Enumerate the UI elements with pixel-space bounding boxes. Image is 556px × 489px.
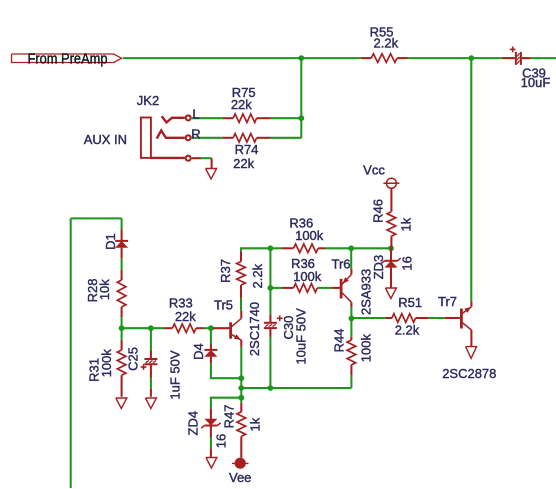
svg-text:2SA933: 2SA933 <box>359 269 374 315</box>
svg-text:16: 16 <box>214 434 229 448</box>
zener diode ZD3 <box>371 248 415 287</box>
wire R44 top <box>350 318 352 336</box>
wire row1 b <box>325 247 391 249</box>
resistor R28 <box>85 270 126 317</box>
junction <box>298 55 304 61</box>
wire Tr5 collector <box>240 298 242 311</box>
wire bias node row <box>122 327 165 329</box>
wire D1 to R28 <box>121 258 123 270</box>
svg-text:1k: 1k <box>399 217 414 231</box>
wire Tr5 emitter column <box>240 347 242 403</box>
svg-text:R37: R37 <box>218 259 233 283</box>
ground <box>385 288 396 299</box>
resistor R36 lower <box>282 256 322 292</box>
transistor Tr6 <box>331 256 373 315</box>
wire R51 row a <box>351 317 385 319</box>
svg-text:R44: R44 <box>332 329 347 353</box>
svg-text:2.2k: 2.2k <box>250 263 265 288</box>
ground <box>116 398 127 409</box>
svg-text:Vee: Vee <box>229 470 251 485</box>
wire bottom rail <box>241 387 351 389</box>
resistor R74 <box>223 134 271 171</box>
wire R row left <box>192 137 223 139</box>
svg-text:2SC1740: 2SC1740 <box>247 302 262 356</box>
wire C30 bottom <box>269 337 271 388</box>
power Vee <box>229 458 251 486</box>
svg-text:Vcc: Vcc <box>363 163 385 178</box>
ground <box>145 398 156 409</box>
svg-text:10k: 10k <box>97 279 112 300</box>
jack contact R <box>157 131 185 139</box>
svg-text:ZD4: ZD4 <box>185 411 200 436</box>
hierarchical label From PreAmp <box>12 50 122 67</box>
wire Tr6 collector down <box>350 307 352 318</box>
jack pin R <box>186 127 201 142</box>
wire jack ground <box>201 157 212 159</box>
svg-text:16: 16 <box>399 256 414 270</box>
junction <box>298 115 304 121</box>
wire top after R55 <box>408 57 502 59</box>
resistor R46 <box>370 188 413 248</box>
wire node to C25 <box>150 328 152 350</box>
jack pin L <box>186 107 200 122</box>
zener diode ZD4 <box>185 409 228 449</box>
svg-text:10uF 50V: 10uF 50V <box>293 308 308 365</box>
junction <box>238 395 244 401</box>
resistor R31 <box>87 341 126 397</box>
svg-text:D1: D1 <box>103 233 118 250</box>
diode D4 <box>191 343 218 363</box>
capacitor C39 <box>502 47 550 91</box>
junction <box>468 55 474 61</box>
wire R row right <box>271 137 302 139</box>
wire D4 to rail <box>211 363 241 378</box>
svg-text:R46: R46 <box>370 199 385 223</box>
wire R33 to base node <box>204 327 212 329</box>
wire Tr6 emitter up <box>350 248 352 268</box>
wire vertical to aux mix <box>300 58 302 138</box>
svg-text:D4: D4 <box>191 343 206 360</box>
resistor R47 <box>221 403 262 458</box>
svg-text:22k: 22k <box>231 97 252 112</box>
svg-text:1uF 50V: 1uF 50V <box>168 350 183 399</box>
wire ZD4 lower <box>210 437 212 448</box>
wire ZD4 link <box>211 398 241 409</box>
junction <box>268 385 274 391</box>
ground <box>206 158 217 179</box>
resistor R37 <box>218 251 265 298</box>
jack contact L <box>162 116 185 122</box>
ground <box>206 448 217 468</box>
ground <box>466 347 477 359</box>
junction <box>148 325 154 331</box>
transistor Tr7 <box>438 294 496 381</box>
wire row2 b <box>317 287 332 289</box>
wire top right edge <box>531 57 556 59</box>
capacitor C25 <box>125 347 182 400</box>
svg-text:R47: R47 <box>221 405 236 429</box>
junction <box>268 245 274 251</box>
svg-text:100k: 100k <box>293 269 322 284</box>
svg-text:22k: 22k <box>175 309 196 324</box>
wire row2 a <box>270 287 282 289</box>
wire top of left branch <box>71 218 122 229</box>
svg-text:2.2k: 2.2k <box>395 323 420 338</box>
wire R44 bottom <box>350 376 352 388</box>
svg-text:22k: 22k <box>233 156 254 171</box>
junction <box>238 385 244 391</box>
svg-text:L: L <box>192 107 199 122</box>
wire L row left <box>192 117 223 119</box>
svg-text:R: R <box>191 127 200 142</box>
junction <box>349 316 355 322</box>
junction <box>208 325 214 331</box>
svg-text:R74: R74 <box>235 142 259 157</box>
svg-text:Tr7: Tr7 <box>438 294 457 309</box>
wire mid column <box>269 248 271 314</box>
wire R37 top bend <box>241 248 270 251</box>
junction <box>348 245 354 251</box>
svg-text:10uF: 10uF <box>521 75 551 90</box>
wire right vertical to Tr7 <box>470 58 472 301</box>
wire row1 a <box>270 247 282 249</box>
svg-text:100k: 100k <box>99 349 114 378</box>
resistor R36 upper <box>282 215 325 252</box>
wire base node to D4 <box>210 328 212 344</box>
wire far left vertical <box>70 218 72 488</box>
diode D1 <box>103 229 128 258</box>
capacitor C30 <box>264 308 308 365</box>
svg-text:C25: C25 <box>125 347 140 371</box>
connector JK2 jack body <box>84 93 185 158</box>
wire node to R31 <box>121 328 123 340</box>
svg-text:Tr5: Tr5 <box>214 298 233 313</box>
wire R51 row b <box>429 317 445 319</box>
svg-text:R51: R51 <box>398 295 422 310</box>
wire main top <box>123 57 362 59</box>
transistor Tr5 <box>213 298 262 356</box>
junction <box>268 285 274 291</box>
wire L row right <box>271 117 302 119</box>
power Vcc <box>363 163 399 189</box>
wire C25 to ground <box>150 378 152 389</box>
svg-text:AUX IN: AUX IN <box>84 132 127 147</box>
resistor R33 <box>165 296 204 333</box>
svg-text:1k: 1k <box>248 417 263 431</box>
junction <box>238 375 244 381</box>
junction <box>388 245 394 251</box>
svg-text:100k: 100k <box>295 228 324 243</box>
svg-text:JK2: JK2 <box>137 93 159 108</box>
resistor R44 <box>332 329 374 376</box>
svg-text:From PreAmp: From PreAmp <box>28 50 108 67</box>
svg-text:Tr6: Tr6 <box>331 256 350 271</box>
resistor R51 <box>385 295 428 338</box>
junction <box>119 325 125 331</box>
resistor R75 <box>223 85 271 123</box>
svg-text:2.2k: 2.2k <box>374 36 399 51</box>
svg-text:2SC2878: 2SC2878 <box>442 366 496 381</box>
jack pin sleeve <box>186 156 201 161</box>
svg-text:100k: 100k <box>359 334 374 363</box>
resistor R55 <box>362 25 408 63</box>
wire R28 to node <box>121 317 123 328</box>
